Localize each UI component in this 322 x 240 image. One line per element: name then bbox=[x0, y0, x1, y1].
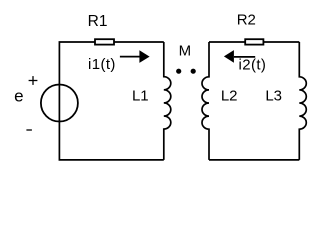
svg-text:L3: L3 bbox=[265, 88, 282, 105]
svg-text:M: M bbox=[179, 43, 192, 60]
svg-text:L2: L2 bbox=[221, 87, 238, 104]
svg-text:e: e bbox=[14, 86, 23, 105]
svg-text:L1: L1 bbox=[132, 87, 149, 104]
svg-text:i1(t): i1(t) bbox=[88, 56, 116, 73]
svg-text:i2(t): i2(t) bbox=[239, 57, 267, 74]
svg-text:R1: R1 bbox=[88, 13, 108, 30]
svg-text:R2: R2 bbox=[237, 11, 256, 28]
